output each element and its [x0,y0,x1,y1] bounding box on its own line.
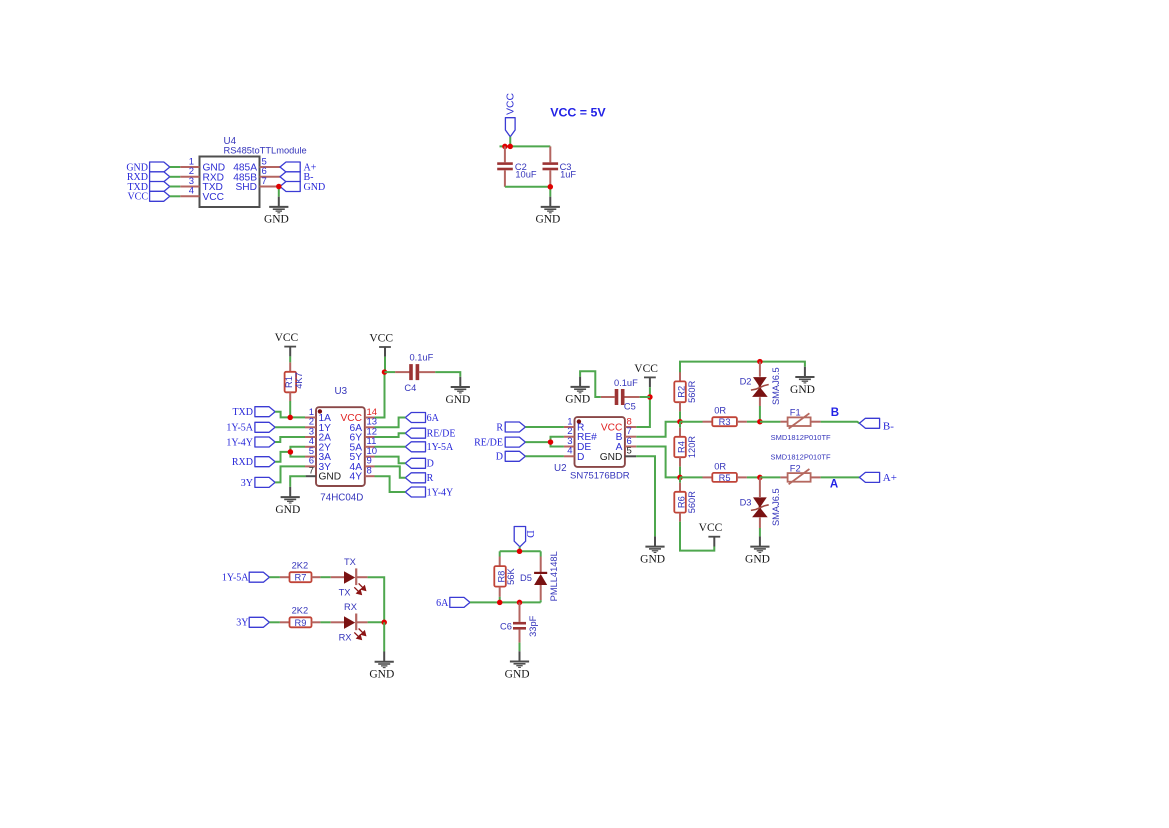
svg-text:F2: F2 [790,463,801,473]
svg-text:560R: 560R [687,380,697,403]
ground (U3 GND pin) [275,487,300,516]
wire D2 node to F1 [760,421,781,423]
fuse F2 SMD1812P010TF [771,453,831,485]
wire VCC stem to node [649,387,651,397]
resistor R8 56K [494,551,516,597]
svg-text:0R: 0R [714,461,726,471]
svg-text:RS485toTTLmodule: RS485toTTLmodule [224,146,307,156]
wire pin4 to node [290,447,305,452]
U2 pin 5 GND [600,446,636,463]
wire F1 to port B- [821,422,860,424]
svg-text:56K: 56K [506,568,516,585]
wire D to node [519,547,521,552]
svg-text:5: 5 [627,446,632,457]
svg-text:R6: R6 [677,496,687,508]
port VCC (U4 left) [127,191,180,202]
svg-text:U3: U3 [335,386,348,397]
svg-text:RX: RX [344,602,357,612]
capacitor C2 10uF [497,146,537,186]
port 1Y-5A (TX row) [222,572,280,583]
wire R3 to D2 node [747,421,760,423]
port D (U2 left) [496,451,564,462]
port RXD (U4 left) [127,172,180,183]
resistor R6 560R [674,477,697,521]
junction VCC/C4 [382,369,388,375]
svg-text:RE/DE: RE/DE [474,438,503,449]
svg-text:120R: 120R [687,436,697,459]
port TXD (U3) [232,407,275,418]
capacitor C5 0.1uF [601,378,650,412]
svg-text:VCC: VCC [127,192,148,203]
junction C5/VCC/pin8 [647,394,653,400]
svg-text:33pF: 33pF [528,615,538,637]
U3 pin 8 4Y [350,466,375,483]
power VCC (above R1) [275,332,299,356]
svg-text:VCC = 5V: VCC = 5V [550,106,606,120]
wire D2 to row B [759,406,761,422]
svg-text:SMAJ6.5: SMAJ6.5 [771,488,781,526]
U3 pin 7 GND [306,466,342,483]
power VCC (C5) [634,363,658,387]
wire pin7 to ground [278,187,280,197]
svg-text:SMAJ6.5: SMAJ6.5 [771,367,781,405]
wire R1 to node [289,401,291,417]
svg-text:VCC: VCC [203,192,225,203]
diode D5 PMLL4148L [520,551,559,601]
port D (U3 right) [375,457,434,470]
svg-text:R1: R1 [284,376,294,388]
svg-text:D3: D3 [740,498,752,508]
wire LED TX to RX node [368,577,385,622]
svg-text:C4: C4 [404,383,416,393]
U4 pin 2 RXD [180,166,224,183]
svg-text:R: R [496,422,503,433]
port 1Y-4Y (U3 right) [375,476,454,498]
junction TXD/R1 node [287,415,293,421]
port GND (U4 left) [126,162,180,173]
wire pin6 A to row [636,447,680,478]
svg-text:RXD: RXD [232,457,253,468]
power flag VCC [505,92,516,136]
ground (C4) [445,377,470,406]
U3 pin 10 5Y [350,446,378,463]
U3 pin 4 2Y [305,436,331,453]
U4 pin 4 VCC [180,186,224,203]
svg-text:0R: 0R [714,406,726,416]
port B- [859,418,894,432]
svg-text:PMLL4148L: PMLL4148L [549,551,559,601]
svg-text:4: 4 [567,446,572,457]
port 6A (U3 right) [375,413,440,428]
svg-text:560R: 560R [687,491,697,514]
U3 pin 6 3Y [305,456,331,473]
svg-text:R3: R3 [719,417,731,427]
svg-text:6A: 6A [436,598,449,609]
U3 pin 3 2A [305,426,331,443]
junction C6 top [517,600,523,606]
junction R8 bottom [497,600,503,606]
capacitor C6 33pF [500,602,538,642]
svg-text:1Y-5A: 1Y-5A [226,423,253,434]
wire node to ground [383,622,385,651]
svg-text:R7: R7 [295,573,307,583]
U2 pin 8 VCC [601,416,636,433]
svg-text:GND: GND [600,452,623,463]
junction row B left [677,419,683,425]
port 6A [436,597,470,608]
wire R6 to VCC [680,522,714,551]
resistor R1 4K7 [284,362,304,401]
port 1Y-4Y (U3 left) [226,437,305,448]
svg-text:2K2: 2K2 [292,606,309,616]
port GND (U4 right) [280,182,325,193]
U2 pin 3 DE [564,436,591,453]
junction C3 bottom [548,184,554,190]
svg-text:SMD1812P010TF: SMD1812P010TF [771,453,831,462]
svg-text:R9: R9 [295,618,307,628]
svg-text:SMD1812P010TF: SMD1812P010TF [771,433,831,442]
U2 pin 2 RE# [564,426,597,443]
wire TXD to pin1 [275,412,305,418]
junction RXD node [288,449,294,455]
svg-text:4: 4 [189,186,194,197]
svg-text:8: 8 [367,466,372,477]
capacitor C3 1uF [543,146,577,186]
junction row A left [677,475,683,481]
wire pin5 to ground [636,456,655,536]
port TXD (U4 left) [127,182,180,193]
resistor R7 2K2 [280,561,321,583]
wire R7 to LED TX [320,576,330,578]
svg-text:0.1uF: 0.1uF [410,352,434,362]
resistor R3 0R [703,406,747,428]
port 1Y-5A (U3 left) [226,422,305,433]
U3 pin 12 6Y [350,426,378,443]
port 1Y-5A (U3 right) [375,442,455,453]
TVS diode D3 SMAJ6.5 [740,477,781,528]
ground (U4 SHD) [264,197,289,226]
resistor R9 2K2 [280,606,321,628]
IC U4 body [200,136,307,207]
junction pin7/SHD [276,184,282,190]
svg-text:RX: RX [339,633,352,643]
wire C4 to ground [435,372,460,377]
wire VCC flag stem [509,137,511,147]
wire R4 to row A [679,467,681,478]
svg-text:2K2: 2K2 [292,561,309,571]
port RXD (U3 left) [232,452,291,468]
junction row B mid [757,419,763,425]
port R (U3 right) [375,466,434,484]
svg-text:C6: C6 [500,622,512,632]
svg-text:1Y-4Y: 1Y-4Y [427,487,454,498]
wire node to pin3 [551,442,564,446]
svg-text:TX: TX [344,557,356,567]
port B- (U4 right) [280,172,314,183]
U2 pin 6 A [616,436,637,453]
svg-text:D5: D5 [520,573,532,583]
wire node to pin2 [551,437,564,442]
svg-text:R5: R5 [719,473,731,483]
wire C6 to ground [519,643,521,652]
svg-text:A+: A+ [883,472,897,484]
U3 pin 5 3A [305,446,331,463]
port 3Y (U3 left) [241,466,305,488]
svg-text:6A: 6A [427,413,440,424]
svg-text:3Y: 3Y [241,478,253,489]
svg-text:R2: R2 [677,386,687,398]
port RE/DE (U3 right) [375,428,456,439]
U4 pin 6 485B [233,166,280,183]
svg-text:TX: TX [339,588,351,598]
svg-text:TXD: TXD [232,407,253,418]
wire R9 to LED RX [320,621,330,623]
wire F2 to port A+ [821,476,860,478]
svg-text:3Y: 3Y [236,618,248,629]
junction C2 top [502,144,508,150]
wire bottom rail [470,601,541,603]
svg-text:VCC: VCC [506,92,517,114]
svg-text:GND: GND [304,182,326,193]
U3 pin 13 6A [350,417,378,434]
junction RE/DE node [548,439,554,445]
wire pin5 to node [290,452,305,457]
IC U2 body [554,417,630,482]
ground (top rail) [790,367,815,396]
svg-text:A: A [830,479,838,491]
wire R5 to D3 node [747,476,760,478]
svg-text:U2: U2 [554,463,567,474]
port R (U2 left) [496,422,564,433]
svg-text:SHD: SHD [235,182,257,193]
IC U3 74HC04D body [316,386,365,504]
wire row B to R3 [680,421,703,423]
wire R2 to row B [679,411,681,421]
port A+ [859,472,897,484]
svg-text:7: 7 [309,466,314,477]
svg-text:R4: R4 [677,441,687,453]
svg-text:7: 7 [262,176,267,187]
U4 pin 7 SHD [235,176,280,193]
ground (C2 C3) [535,197,560,226]
svg-text:1Y-5A: 1Y-5A [222,573,249,584]
svg-text:D2: D2 [740,377,752,387]
wire LED RX to node [368,621,385,623]
wire pin8 to VCC node [636,397,650,427]
svg-text:C5: C5 [624,402,636,412]
svg-text:D: D [577,452,584,463]
U4 pin 5 485A [233,156,280,173]
ground (C6) [505,651,530,680]
wire D5 to bottom rail [540,600,542,602]
port A+ (U4 right) [280,162,317,173]
ground (D3) [745,536,770,565]
ground (U2 GND pin) [640,536,665,565]
svg-text:SN75176BDR: SN75176BDR [570,471,630,482]
wire C3 to ground [549,187,551,197]
svg-text:4K7: 4K7 [294,372,304,389]
U3 pin 2 1Y [305,417,331,434]
svg-text:R: R [427,473,434,484]
wire C5 to ground [580,371,601,397]
wire pin7 to ground [290,476,305,487]
svg-text:1Y-4Y: 1Y-4Y [226,437,253,448]
TVS diode D2 SMAJ6.5 [740,362,781,406]
wire VCC to R1 [289,356,291,362]
ground (LEDs) [369,652,394,681]
power VCC (above U3 pin14) [369,332,393,356]
svg-text:4Y: 4Y [350,472,363,483]
junction VCC stem [508,144,514,150]
port RE/DE (U2 left) [474,437,550,448]
svg-text:10uF: 10uF [515,170,537,180]
resistor R4 120R [674,422,697,467]
wire D3 to ground [759,528,761,536]
junction LED node [381,620,387,626]
wire pin7 B to row [636,422,680,437]
svg-text:B-: B- [883,421,894,433]
svg-text:RE/DE: RE/DE [427,429,456,440]
LED TX [331,557,368,598]
U3 pin 11 5A [350,436,377,453]
svg-text:74HC04D: 74HC04D [320,493,363,504]
svg-text:1uF: 1uF [560,170,576,180]
wire VCC down to C4 node and pin14 [375,357,386,418]
wire top rail [680,362,805,374]
U3 pin 9 4A [350,456,375,473]
U2 pin 4 D [564,446,584,463]
port D (down) [514,527,535,547]
port 3Y (RX row) [236,617,280,628]
svg-text:0.1uF: 0.1uF [614,378,638,388]
U4 pin 1 GND [180,156,225,173]
ground (C5) [565,377,590,406]
U2 pin 7 B [616,426,637,443]
junction top rail / D2 [757,359,763,365]
U3 pin 1 1A [305,407,331,424]
wire top rail [500,145,551,147]
svg-text:F1: F1 [790,408,801,418]
svg-text:D: D [427,459,434,470]
svg-text:1Y-5A: 1Y-5A [427,442,454,453]
wire D3 node to F2 [760,476,781,478]
svg-text:GND: GND [319,472,342,483]
wire top rail (R8/D5) [500,550,541,552]
U4 pin 3 TXD [180,176,223,193]
junction D node [517,549,523,555]
resistor R2 560R [674,372,697,411]
U3 pin 14 VCC [340,407,377,424]
wire bottom rail [505,186,550,188]
wire R8 to bottom rail [499,597,501,603]
U2 pin 1 R [564,416,584,433]
fuse F1 SMD1812P010TF [771,408,831,443]
resistor R5 0R [703,461,747,483]
power VCC (R6) [699,522,723,546]
capacitor C4 0.1uF [385,352,436,393]
junction row A mid [757,475,763,481]
LED RX [331,602,368,643]
wire row A to R5 [680,476,703,478]
svg-text:D: D [524,530,535,538]
svg-text:D: D [496,452,503,463]
svg-text:B: B [831,407,839,419]
